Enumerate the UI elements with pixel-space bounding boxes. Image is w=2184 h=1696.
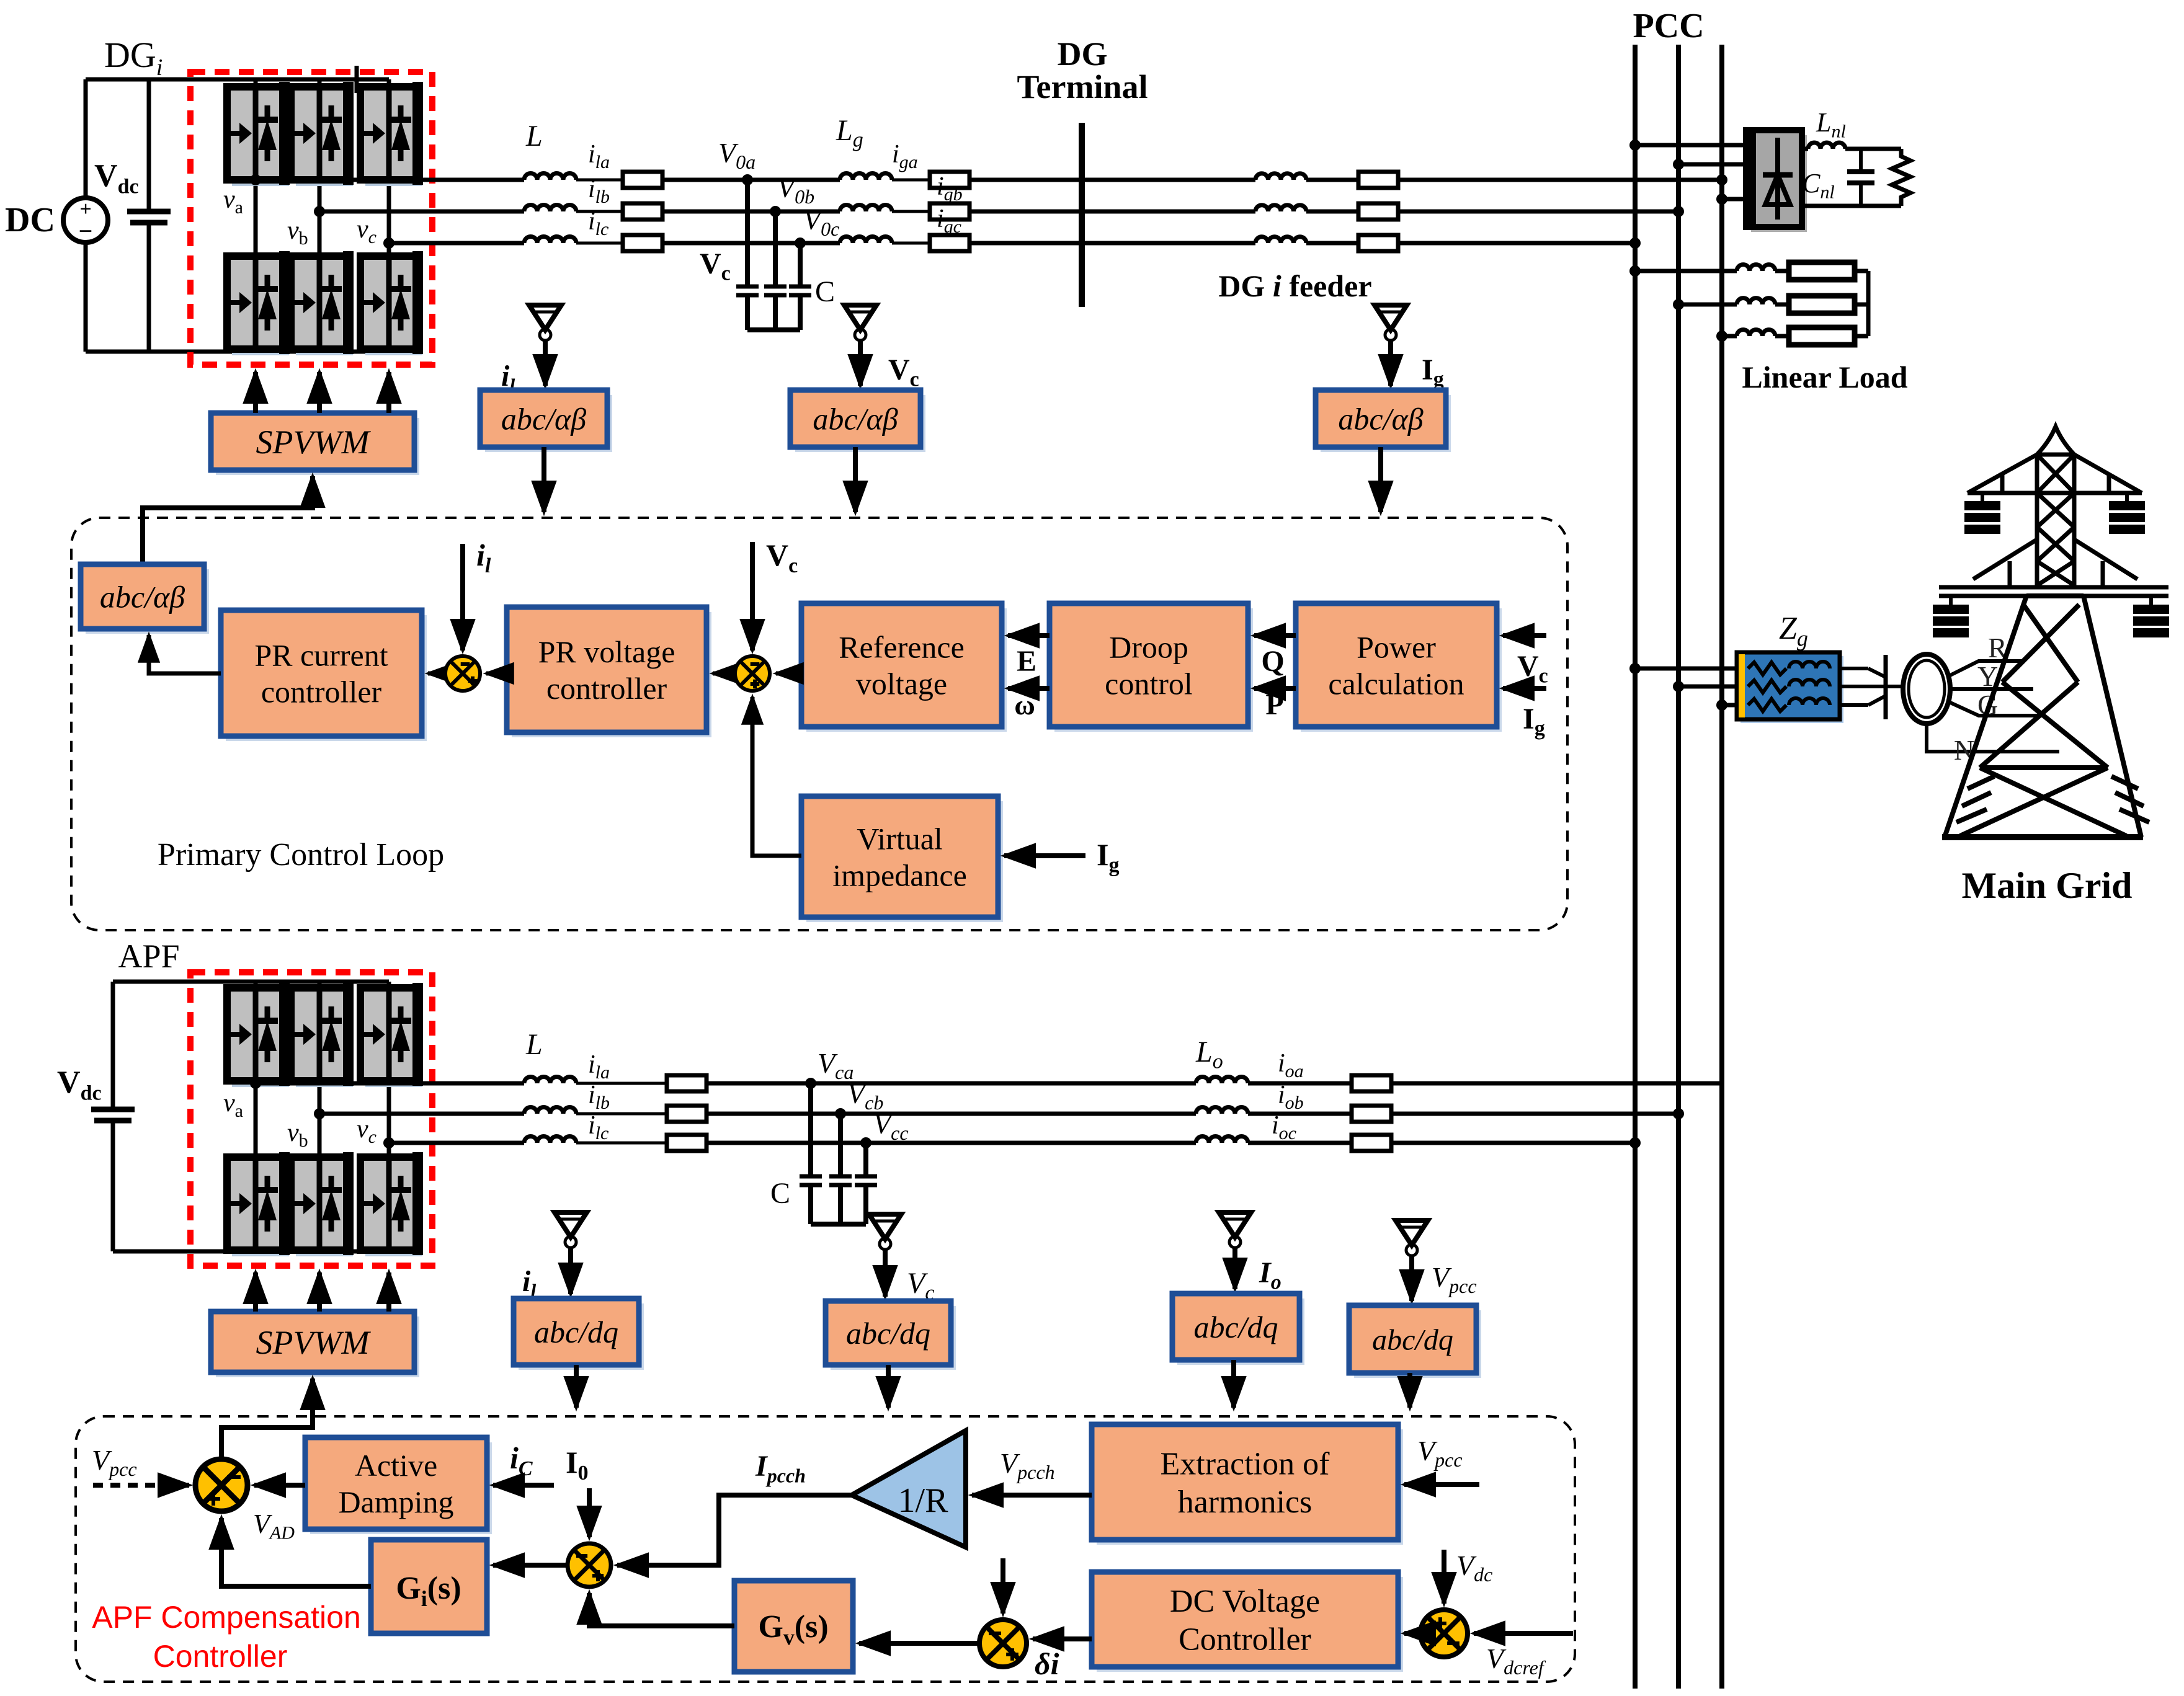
wire phase c segment 6 [1306, 241, 1358, 246]
wire phase a segment 2 [576, 179, 623, 182]
wire apf phase c 4 [1248, 1141, 1352, 1145]
bus PCC line 2 [1676, 45, 1681, 1689]
wire Ig into virtual impedance [1004, 853, 1085, 858]
wire SPVWM2 gate a [253, 1272, 258, 1312]
svg-text:abc/αβ: abc/αβ [100, 580, 185, 615]
wire I0 into sumB [587, 1488, 592, 1537]
resistor phase c 2 [930, 235, 969, 251]
IGBT module S3 [291, 82, 354, 186]
wire linear load branch 2 [1673, 299, 1684, 310]
IGBT module S7 [227, 983, 290, 1087]
wire phase b segment 5 [969, 210, 1255, 214]
wire SPVWM1 gate b [317, 372, 322, 413]
inductor Lg phase b [840, 205, 892, 211]
insulator top left [1964, 492, 2000, 534]
transformer [1903, 654, 1950, 724]
wire DC source leads [84, 79, 88, 198]
wire Vc into power [1503, 633, 1546, 638]
insulator mid right [2133, 596, 2169, 637]
svg-text:Terminal: Terminal [1017, 68, 1148, 105]
inductor feeder phase a [1255, 174, 1306, 180]
transmission tower lower [1942, 596, 2149, 837]
wire phase R to tower [1949, 661, 2023, 676]
wire zero ref into sumC [1001, 1558, 1005, 1614]
svg-text:1/R: 1/R [898, 1481, 949, 1520]
wire phase a segment 4 [892, 179, 930, 182]
svg-text:APF: APF [118, 938, 179, 975]
svg-text:abc/αβ: abc/αβ [813, 402, 898, 437]
wire sum1 to PRc [428, 672, 445, 676]
capacitor C phase b [764, 285, 787, 289]
inductor Lg phase a [840, 174, 892, 180]
apf controller boundary [76, 1416, 1575, 1682]
wire SPVWM1 gate a [253, 372, 258, 413]
wire rectifier feed 1 [1629, 140, 1641, 151]
svg-text:abc/dq: abc/dq [846, 1316, 930, 1351]
svg-text:abc/αβ: abc/αβ [1338, 402, 1423, 437]
wire APF top bus [113, 980, 389, 984]
summing junction B [568, 1543, 611, 1587]
IGBT module S1 [227, 82, 290, 186]
wire phase c segment 7 [1398, 241, 1635, 246]
bus DG Terminal bar [1079, 123, 1085, 307]
block Droop control [1054, 608, 1253, 732]
wire phase c segment 3 [662, 241, 840, 246]
wire droop E [1008, 633, 1050, 638]
wire Vpcc dashed into sumA [93, 1483, 189, 1488]
svg-text:calculation: calculation [1328, 667, 1464, 701]
wire inverter1 leg b [318, 79, 322, 352]
inductor L apf c [524, 1137, 576, 1143]
svg-text:Q: Q [1261, 645, 1284, 678]
wire apf phase b 2 [576, 1112, 667, 1116]
wire apf phase c 3 [706, 1141, 1196, 1145]
wire linear load branch 1 [1629, 265, 1641, 277]
wire apf phase a 1 [256, 1081, 524, 1086]
wire virtual impedance to sum2 [752, 697, 801, 856]
wire sumA to SPVWM2 [221, 1379, 313, 1461]
block Gi(s) [371, 1540, 487, 1633]
svg-text:C: C [815, 275, 835, 308]
sensor Io probe [1219, 1212, 1251, 1289]
capacitor C phase a [736, 285, 759, 289]
summing junction D [1420, 1610, 1468, 1657]
block Extraction of harmonics [1097, 1429, 1403, 1545]
svg-text:E: E [1017, 645, 1036, 678]
svg-text:harmonics: harmonics [1178, 1485, 1313, 1520]
wire phase c segment 5 [969, 241, 1255, 246]
block Power calculation [1301, 608, 1502, 732]
wire APF left [111, 982, 115, 1109]
inductor linear load 1 [1737, 265, 1775, 271]
block Gv(s) [734, 1581, 853, 1672]
inductor feeder phase b [1255, 205, 1306, 211]
svg-text:Controller: Controller [153, 1639, 288, 1674]
wire extraction to 1R [972, 1493, 1092, 1498]
sensor il probe [529, 305, 561, 386]
wire phase c segment 2 [576, 242, 623, 245]
wire dq1 down [574, 1365, 579, 1408]
svg-text:Linear Load: Linear Load [1742, 360, 1907, 394]
resistor apf c [667, 1135, 706, 1151]
wire PRc to abc [149, 635, 221, 673]
inductor L apf b [524, 1108, 576, 1114]
converter abc-alphabeta 3 [1321, 395, 1451, 452]
wire linear load common [1866, 271, 1871, 336]
insulator mid left [1933, 596, 1969, 637]
svg-text:DG: DG [1058, 35, 1108, 73]
resistor apf b [667, 1106, 706, 1122]
converter abc-dq 4 [1354, 1310, 1481, 1378]
wire dq3 down [1231, 1360, 1236, 1408]
inductor feeder phase c [1255, 237, 1306, 243]
wire dq4 down [1407, 1373, 1412, 1408]
wire SPVWM1 gate c [386, 372, 391, 413]
svg-text:Primary Control Loop: Primary Control Loop [158, 837, 444, 872]
gain 1/R triangle [852, 1431, 966, 1547]
wire apf phase c 1 [389, 1141, 524, 1145]
wire iC into AD [493, 1483, 554, 1488]
svg-text:impedance: impedance [832, 858, 967, 893]
wire inverter2 leg c [387, 982, 391, 1251]
wire NL top [1802, 147, 1808, 151]
capacitor C apf c [855, 1174, 877, 1179]
wire phase b segment 2 [576, 210, 623, 213]
resistor linear load 1 [1789, 262, 1855, 280]
wire ref to sum2 [776, 672, 801, 676]
svg-text:Damping: Damping [338, 1485, 453, 1519]
capacitor C apf b [829, 1174, 852, 1179]
svg-text:abc/αβ: abc/αβ [501, 402, 586, 437]
svg-text:SPVWM: SPVWM [256, 1324, 372, 1361]
primary control loop boundary [71, 518, 1567, 930]
svg-text:control: control [1105, 667, 1193, 701]
svg-text:DG i feeder: DG i feeder [1218, 269, 1371, 303]
resistor feeder phase a [1358, 172, 1398, 188]
svg-text:PR current: PR current [254, 638, 388, 673]
wire inverter1 leg c [387, 79, 391, 352]
IGBT module S11 [360, 983, 423, 1087]
sensor Vpcc probe [1396, 1220, 1428, 1301]
wire il into sum1 [460, 544, 465, 650]
wire inverter2 leg b [318, 982, 322, 1251]
wire Vc into sum2 [750, 542, 755, 650]
inductor L apf a [524, 1077, 576, 1084]
svg-text:Power: Power [1357, 630, 1436, 665]
wire rectifier feed 3 [1716, 193, 1727, 205]
wire phase b segment 3 [662, 210, 840, 214]
svg-text:DC Voltage: DC Voltage [1170, 1584, 1320, 1619]
inductor L phase b [524, 205, 576, 211]
wire Gi to sumA [221, 1518, 371, 1586]
wire phase b segment 1 [319, 210, 524, 214]
wire NL loop [1845, 147, 1901, 151]
wire apf phase b 3 [706, 1112, 1196, 1116]
converter abc-dq 3 [1177, 1299, 1304, 1365]
transmission tower upper [1939, 427, 2168, 596]
resistor linear load 2 [1789, 296, 1855, 313]
svg-text:PR voltage: PR voltage [538, 634, 675, 669]
wire apf phase a 2 [576, 1082, 667, 1085]
sensor Vc probe [844, 305, 876, 386]
capacitor C apf a [800, 1174, 822, 1179]
svg-text:abc/dq: abc/dq [534, 1315, 618, 1349]
wire droop omega [1008, 686, 1050, 691]
wire phase c segment 1 [389, 241, 524, 246]
converter abc-dq 2 [831, 1306, 956, 1370]
resistor apf c 2 [1352, 1135, 1391, 1151]
sensor Vc2 probe [869, 1214, 901, 1297]
IGBT module S2 [227, 251, 290, 355]
svg-text:Gi(s): Gi(s) [396, 1571, 461, 1611]
DC source V1 [63, 198, 108, 242]
summing junction A [195, 1459, 247, 1511]
capacitor Cdc2 [91, 1107, 135, 1112]
wire sumB to Gi [493, 1563, 568, 1568]
node DGi tick [355, 66, 359, 93]
wire phase a segment 5 [969, 178, 1255, 182]
wire Vdc into sumD [1442, 1550, 1446, 1604]
wire Vdcref into sumD [1474, 1631, 1573, 1636]
inverter 1 red dashed boundary [190, 72, 432, 365]
svg-text:PCC: PCC [1633, 7, 1704, 45]
IGBT module S9 [291, 983, 354, 1087]
wire abc-alphabeta to SPVWM1 [143, 476, 313, 564]
svg-text:Droop: Droop [1109, 630, 1188, 665]
wire apf phase b 5 [1391, 1112, 1678, 1116]
node va [250, 174, 261, 185]
sensor il2 probe [555, 1212, 587, 1294]
resistor phase c [623, 235, 662, 251]
IGBT module S4 [291, 251, 354, 355]
wire phase b segment 6 [1306, 210, 1358, 214]
bus PCC line 1 [1633, 45, 1638, 1689]
wire apf phase a 3 [706, 1081, 1196, 1086]
wire apf phase a 4 [1248, 1081, 1352, 1086]
svg-text:−: − [79, 217, 93, 245]
wire Zg feed 3 [1716, 699, 1727, 711]
svg-text:L: L [525, 1028, 543, 1061]
wire DC bottom bus [86, 350, 389, 354]
wire linear load branch 3 [1716, 331, 1727, 342]
wire DC top bus [86, 78, 389, 82]
IGBT module S8 [227, 1152, 290, 1256]
svg-text:abc/dq: abc/dq [1372, 1323, 1453, 1356]
wire apf capacitor common [808, 1186, 813, 1224]
block DC Voltage Controller [1097, 1577, 1403, 1672]
IGBT module S10 [291, 1152, 354, 1256]
wire sumD to DCVC [1404, 1631, 1420, 1636]
wire Gv to sumB [589, 1593, 734, 1626]
wire rectifier feed 2 [1673, 159, 1684, 170]
inductor Lo a [1196, 1077, 1248, 1084]
block SPVWM 2 [216, 1316, 419, 1377]
inductor Lg phase c [840, 237, 892, 243]
summing junction C [979, 1620, 1027, 1667]
wire phase b segment 4 [892, 210, 930, 213]
wire apf phase b 1 [319, 1112, 524, 1116]
node va2 [250, 1078, 261, 1089]
node vb [314, 206, 325, 217]
inductor L phase a [524, 174, 576, 180]
IGBT module S12 [360, 1152, 423, 1256]
inverter 2 red dashed boundary [190, 972, 432, 1266]
resistor phase a 2 [930, 172, 969, 188]
resistor apf a 2 [1352, 1075, 1391, 1091]
inductor linear load 2 [1737, 298, 1775, 304]
wire power P [1254, 686, 1296, 691]
resistor phase a [623, 172, 662, 188]
wire phase a segment 1 [256, 178, 524, 182]
wire SPVWM2 gate c [386, 1272, 391, 1312]
filter capacitor bank taps [742, 174, 753, 185]
wire neutral N to tower [1927, 724, 2059, 752]
wire Zg feed 1 [1629, 663, 1641, 674]
resistor phase b [623, 203, 662, 220]
wire power Q [1254, 633, 1296, 638]
wire APF bottom bus [113, 1250, 389, 1254]
wire sum2 to PRv [713, 672, 734, 676]
inductor Lo c [1196, 1137, 1248, 1143]
svg-text:δi: δi [1035, 1646, 1059, 1681]
block Reference voltage [806, 608, 1007, 732]
inductor Lo b [1196, 1108, 1248, 1114]
wire dq2 down [886, 1365, 891, 1408]
wire apf phase c 2 [576, 1142, 667, 1145]
wire Vpcc into extraction [1404, 1482, 1479, 1487]
svg-text:L: L [525, 120, 543, 153]
wire Zg feed 2 [1673, 681, 1684, 692]
wire phase a segment 7 [1398, 178, 1722, 182]
capacitor Cnl [1859, 149, 1863, 172]
capacitor Cdc1 [147, 79, 151, 211]
svg-text:Controller: Controller [1179, 1622, 1311, 1657]
resistor Rnl zigzag [1892, 149, 1910, 206]
apf filter capacitor taps [805, 1078, 816, 1089]
wire phase a segment 6 [1306, 178, 1358, 182]
svg-text:DC: DC [5, 201, 55, 239]
IGBT module S6 [360, 251, 423, 355]
node vb2 [314, 1108, 325, 1119]
resistor linear load 3 [1789, 327, 1855, 345]
insulator top right [2109, 492, 2145, 534]
wire AD to sumA [254, 1483, 305, 1488]
wire apf phase a 5 [1391, 1081, 1722, 1086]
svg-text:C: C [770, 1177, 790, 1210]
svg-text:SPVWM: SPVWM [256, 424, 372, 461]
svg-text:controller: controller [546, 671, 667, 706]
wire apf phase c 5 [1391, 1141, 1635, 1145]
wire capacitor common [745, 296, 750, 330]
wire abc1 down [542, 447, 546, 512]
converter abc-dq 1 [519, 1303, 644, 1370]
block PR current controller [226, 615, 427, 741]
inductor Lnl [1808, 143, 1845, 149]
bus PCC line 3 [1719, 45, 1724, 1689]
resistor phase b 2 [930, 203, 969, 220]
impedance Zg [1741, 656, 1843, 723]
wire phase G to tower [1949, 702, 2044, 716]
wire phase a segment 3 [662, 178, 840, 182]
wire sumC to Gv [859, 1641, 979, 1646]
converter abc-alphabeta loop [86, 569, 209, 634]
svg-text:P: P [1265, 688, 1283, 721]
rectifier nonlinear load [1751, 135, 1807, 232]
wire abc2 down [853, 447, 858, 512]
resistor apf a [667, 1075, 706, 1091]
svg-text:ω: ω [1014, 689, 1035, 721]
block Active Damping [310, 1442, 492, 1534]
svg-text:Reference: Reference [839, 630, 965, 665]
node vc2 [383, 1137, 394, 1148]
resistor feeder phase c [1358, 235, 1398, 251]
IGBT module S5 [360, 82, 423, 186]
wire phase b segment 7 [1398, 210, 1678, 214]
inductor linear load 3 [1737, 330, 1775, 336]
wire inverter1 leg a [254, 79, 258, 352]
capacitor C phase c [789, 285, 811, 289]
svg-text:DGi: DGi [104, 35, 163, 81]
svg-text:controller: controller [261, 675, 382, 709]
inductor L phase c [524, 237, 576, 243]
wire phase c segment 4 [892, 242, 930, 245]
block Virtual impedance [806, 801, 1003, 922]
wire Zg to transformer [1840, 667, 1868, 670]
wire DCVC to sumC [1033, 1636, 1092, 1641]
resistor apf b 2 [1352, 1106, 1391, 1122]
wire apf phase b 4 [1248, 1112, 1352, 1116]
converter abc-alphabeta 2 [795, 395, 925, 452]
svg-text:abc/dq: abc/dq [1193, 1310, 1278, 1344]
wire inverter2 leg a [254, 982, 258, 1251]
svg-text:Main Grid: Main Grid [1961, 865, 2132, 906]
wire phase Y to tower [1950, 687, 2033, 691]
svg-text:voltage: voltage [856, 667, 947, 701]
svg-text:Extraction of: Extraction of [1161, 1447, 1330, 1482]
wire PRv to sum1 [486, 672, 507, 676]
wire Ipcch path [617, 1495, 852, 1565]
svg-text:Active: Active [355, 1448, 437, 1483]
converter abc-alphabeta 1 [485, 395, 612, 452]
svg-text:Virtual: Virtual [857, 822, 943, 856]
svg-text:APF Compensation: APF Compensation [92, 1600, 361, 1635]
resistor feeder phase b [1358, 203, 1398, 220]
sensor Ig probe [1375, 305, 1407, 386]
block PR voltage controller [512, 612, 711, 737]
wire abc3 down [1378, 447, 1383, 512]
wire Ig into power [1503, 686, 1546, 691]
node vc [383, 238, 394, 249]
block SPVWM 1 [216, 418, 419, 475]
wire SPVWM2 gate b [317, 1272, 322, 1312]
